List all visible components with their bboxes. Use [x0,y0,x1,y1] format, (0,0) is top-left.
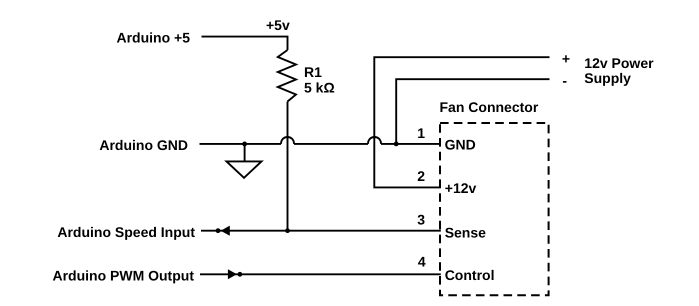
arrow speed input direction (left) [221,226,230,236]
resistor R1 [278,50,296,102]
junction ground symbol stub [242,142,247,147]
svg-text:Arduino +5: Arduino +5 [116,30,190,46]
svg-text:3: 3 [417,211,425,227]
svg-text:Supply: Supply [584,70,631,86]
wire hop over resistor wire [281,137,294,144]
svg-text:Fan Connector: Fan Connector [440,99,539,115]
svg-text:4: 4 [418,253,426,269]
junction negative supply to GND [394,142,399,147]
wire resistor R1 bottom to speed-input line [287,102,289,231]
svg-text:5 kΩ: 5 kΩ [304,80,335,96]
svg-text:12v Power: 12v Power [584,55,654,71]
svg-text:Sense: Sense [445,224,486,240]
svg-text:+5v: +5v [266,17,290,33]
wire Arduino +5 to resistor R1 top [202,37,288,50]
svg-text:Arduino Speed Input: Arduino Speed Input [57,224,195,240]
wire Arduino GND middle segment [294,143,368,145]
junction dot speed arrow [216,228,221,233]
ground [227,161,262,177]
svg-text:Arduino PWM Output: Arduino PWM Output [52,267,194,283]
wire hop over +12v wire [368,137,381,144]
junction resistor wire to speed line [285,228,290,233]
wire 12v power positive [374,57,549,187]
svg-text:GND: GND [445,137,476,153]
svg-text:+12v: +12v [445,180,477,196]
wire Arduino GND left segment [200,143,282,145]
svg-text:-: - [562,73,567,89]
svg-text:Control: Control [445,267,495,283]
wire Arduino GND right segment to pin 1 [381,143,441,145]
svg-text:+: + [562,50,570,66]
svg-text:1: 1 [417,125,425,141]
arrow PWM output direction (right) [228,269,237,279]
junction dot PWM arrow [238,272,243,277]
svg-text:2: 2 [417,168,425,184]
wire 12v power negative [396,79,549,144]
connector J1 fan connector dashed outline [440,123,549,295]
wire Arduino PWM Output to pin 4 [200,273,441,275]
svg-text:Arduino GND: Arduino GND [99,137,188,153]
svg-text:R1: R1 [304,64,322,80]
wire Arduino Speed Input to pin 3 [201,230,441,232]
